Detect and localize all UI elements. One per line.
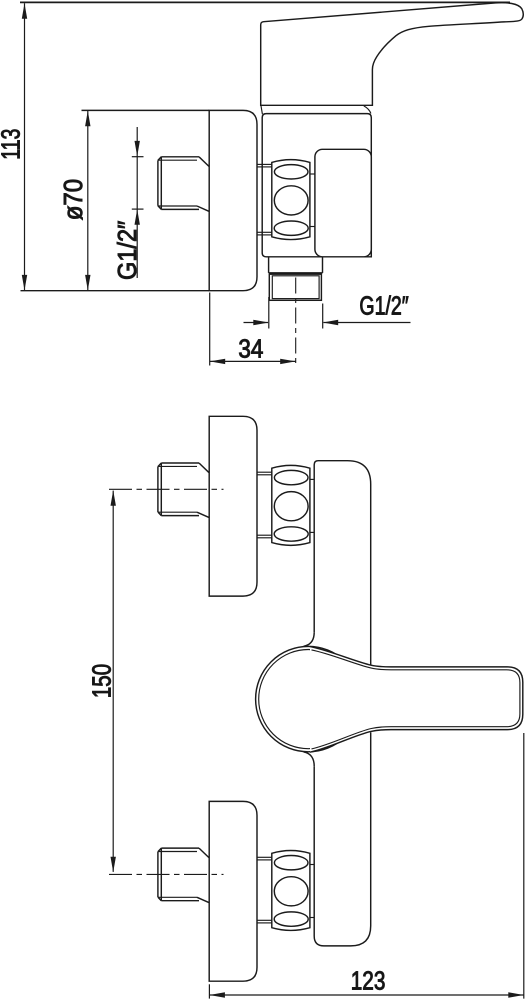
dimension G1/2 outlet arrows	[244, 322, 269, 324]
upper wall connection assembly (plan)	[209, 416, 257, 596]
lower wall connection assembly (plan)	[209, 801, 257, 981]
extension line ø70 top	[82, 109, 210, 111]
threaded nipple G1/2 (top view)	[161, 156, 199, 158]
connector stubs plate-to-union (top view)	[257, 163, 272, 165]
svg-text:ø70: ø70	[60, 179, 88, 221]
dimension 34 line with arrows	[210, 360, 296, 362]
handle lever (plan) outer outline	[310, 647, 523, 753]
extension line 123 right (handle tip)	[523, 733, 525, 999]
dimension G1/2 vertical line+arrows (top view)	[136, 127, 138, 278]
extension tick at outlet thread left	[268, 297, 270, 329]
extension line bottom (wall plate bottom, 113/ø70 dims)	[21, 290, 210, 292]
eccentric union nut with rollers (top view)	[272, 160, 310, 240]
body shoulder fillets under handle skirt	[261, 105, 371, 114]
svg-text:G1/2″: G1/2″	[359, 293, 408, 321]
extension line 34 left (plate face)	[209, 293, 211, 366]
handle dome inner circle (plan)	[259, 650, 358, 749]
svg-text:G1/2″: G1/2″	[114, 221, 142, 280]
dimension 150 line with arrows	[112, 491, 114, 872]
dimension ø70 line with arrows	[87, 111, 89, 290]
handle lever (side view)	[261, 3, 524, 106]
wall plate (side view)	[209, 110, 257, 290]
front cover plate (side view)	[315, 149, 371, 256]
fillet tube-to-dome upper left	[304, 632, 315, 646]
mixer body (top view)	[262, 114, 371, 257]
outlet thread G1/2	[269, 272, 323, 274]
svg-text:150: 150	[88, 664, 116, 698]
fillet tube-to-dome lower left	[304, 752, 315, 766]
dimension 113 line with arrows	[24, 3, 26, 290]
outlet centreline (dash-dot)	[295, 278, 297, 365]
body tube lower segment (plan)	[314, 732, 371, 946]
handle lever (plan) inner line	[312, 650, 520, 749]
extension tick at outlet thread right	[322, 304, 324, 329]
svg-text:123: 123	[351, 968, 386, 996]
links union-to-body (top view)	[310, 173, 315, 175]
outlet stub	[268, 257, 270, 273]
dimension 123 line with arrows	[209, 994, 523, 996]
body tube upper segment (plan)	[314, 461, 371, 666]
extension line at top of handle (113 dim)	[20, 1, 510, 3]
extension line 123 left (plate face)	[208, 984, 210, 998]
handle dome outer circle (plan)	[256, 646, 361, 751]
svg-text:34: 34	[238, 336, 263, 364]
svg-text:113: 113	[0, 129, 26, 160]
